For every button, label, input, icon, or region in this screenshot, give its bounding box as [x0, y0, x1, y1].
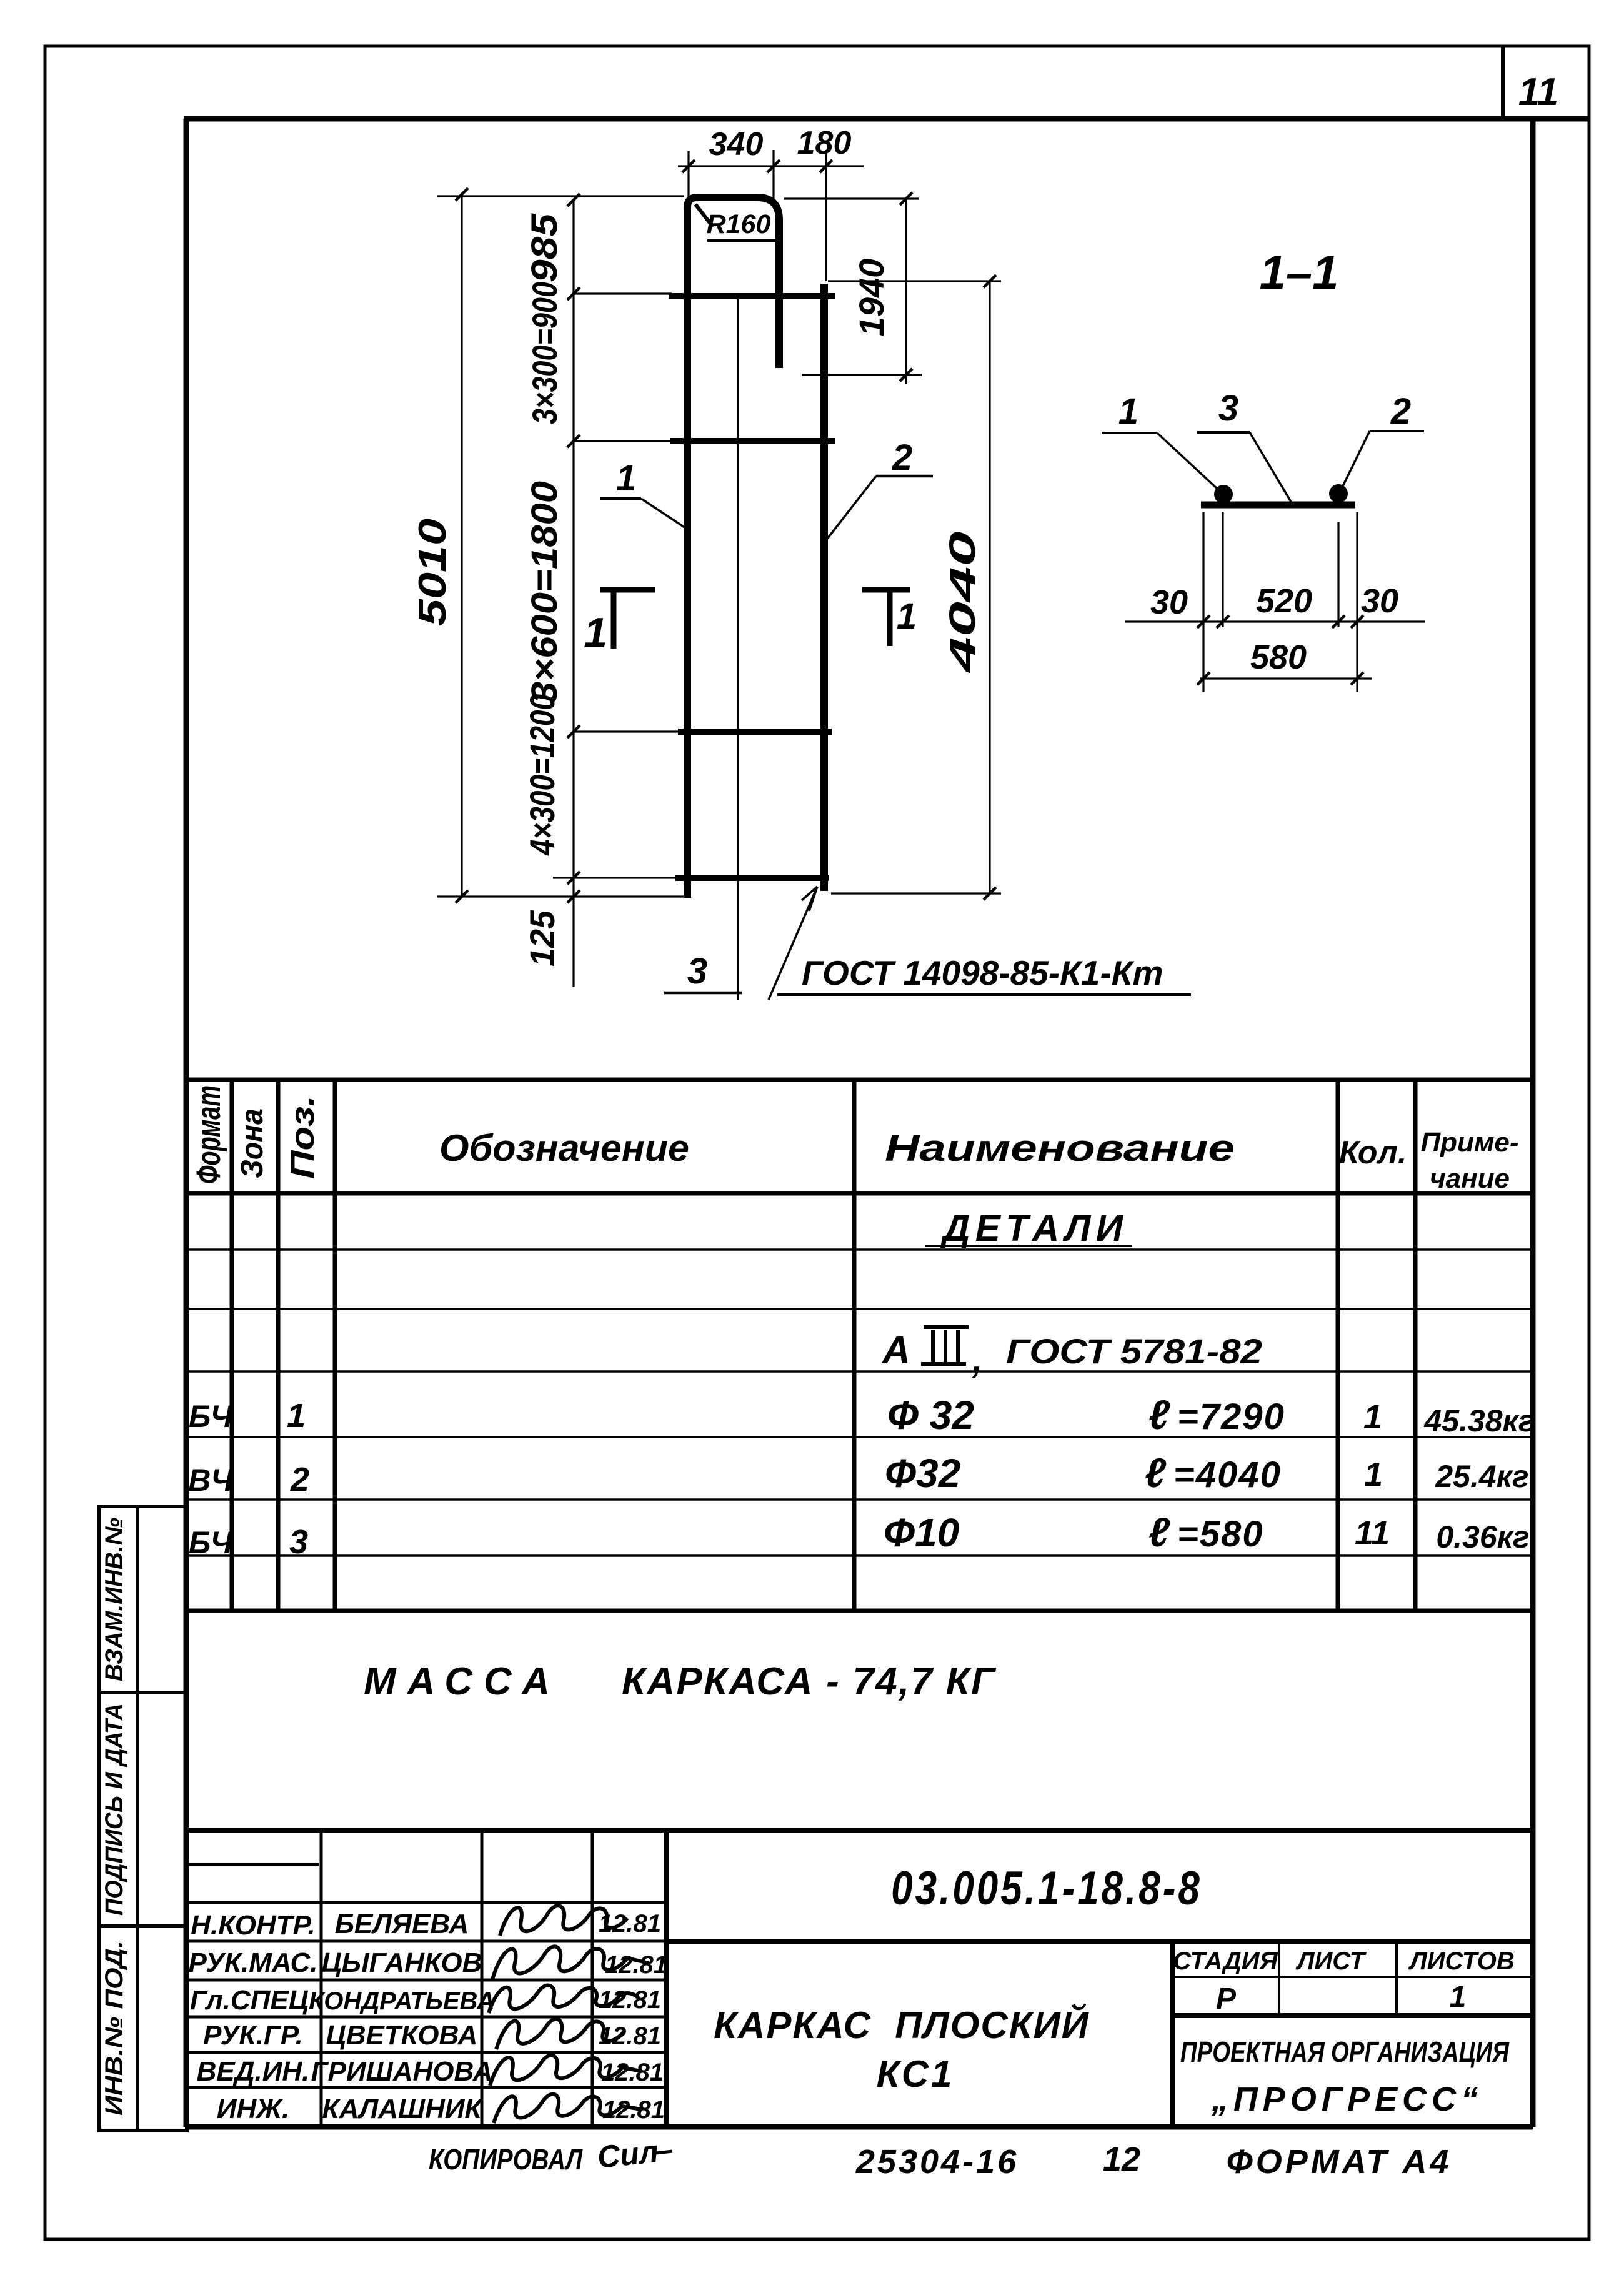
section mark 1 (right) [862, 590, 917, 646]
svg-text:Ф10: Ф10 [884, 1510, 959, 1555]
svg-text:БЧ: БЧ [189, 1399, 234, 1434]
svg-text:=580: =580 [1177, 1514, 1264, 1554]
row: DETALI [925, 1207, 1132, 1249]
svg-text:,: , [972, 1340, 982, 1380]
svg-text:ЦЫГАНКОВ: ЦЫГАНКОВ [322, 1947, 482, 1978]
svg-text:11: 11 [1355, 1515, 1390, 1552]
section: bar 1 dot [1214, 485, 1233, 504]
svg-text:КАЛАШНИК: КАЛАШНИК [322, 2094, 484, 2124]
document number [891, 1861, 1202, 1914]
axis line of cross bars [737, 296, 739, 1000]
position label 1 (leader) [600, 458, 685, 528]
svg-text:1–1: 1–1 [1260, 246, 1339, 299]
svg-text:12.81: 12.81 [599, 2022, 661, 2050]
svg-text:1: 1 [616, 458, 636, 499]
svg-text:чание: чание [1430, 1163, 1510, 1194]
svg-text:МАССА: МАССА [364, 1660, 550, 1703]
svg-text:=4040: =4040 [1173, 1455, 1282, 1495]
svg-text:1: 1 [287, 1397, 306, 1435]
section label 2 [1342, 391, 1424, 487]
section: cross bar 3 seen as strip [1201, 502, 1355, 509]
top dimension line 340 / 180 [678, 150, 864, 281]
title area grid [666, 1942, 1533, 2127]
position label 2 (leader) [825, 437, 933, 541]
svg-text:11: 11 [1518, 71, 1558, 114]
svg-text:4×300=1200: 4×300=1200 [522, 694, 562, 856]
svg-text:Наименование: Наименование [885, 1127, 1235, 1169]
cross bar 3 (bottom) [675, 875, 829, 881]
svg-text:ВЕД.ИН.: ВЕД.ИН. [197, 2056, 310, 2087]
svg-text:СТАДИЯ: СТАДИЯ [1173, 1947, 1278, 1975]
svg-text:25.4кг: 25.4кг [1435, 1459, 1528, 1494]
title block top line [186, 1828, 1533, 1833]
svg-text:ℓ: ℓ [1145, 1450, 1167, 1496]
signature rows text [189, 1909, 495, 2124]
svg-text:ℓ: ℓ [1148, 1509, 1170, 1555]
cross bar 3 (second) [670, 438, 835, 444]
svg-text:=7290: =7290 [1177, 1396, 1285, 1437]
svg-text:КС1: КС1 [877, 2053, 955, 2095]
svg-text:ПРОЕКТНАЯ ОРГАНИЗАЦИЯ: ПРОЕКТНАЯ ОРГАНИЗАЦИЯ [1180, 2036, 1510, 2068]
svg-text:Сил: Сил [595, 2134, 660, 2175]
svg-text:1940: 1940 [852, 259, 891, 337]
svg-text:ГОСТ 14098-85-К1-Кт: ГОСТ 14098-85-К1-Кт [802, 953, 1163, 992]
row: item 3, F10 l=580 [189, 1509, 1530, 1561]
svg-text:30: 30 [1361, 582, 1398, 620]
svg-text:3: 3 [687, 951, 707, 992]
svg-text:Н.КОНТР.: Н.КОНТР. [191, 1910, 315, 1941]
svg-text:340: 340 [709, 126, 764, 162]
cross bar 3 (top, item 3) [669, 293, 835, 299]
svg-text:5010: 5010 [411, 519, 454, 626]
main drawing frame (thick) [184, 119, 1589, 2127]
svg-text:БЧ: БЧ [189, 1525, 234, 1560]
svg-text:30: 30 [1150, 584, 1188, 621]
svg-text:2: 2 [892, 437, 912, 478]
section dim line 30/520/30 [1125, 620, 1425, 622]
svg-text:12.81: 12.81 [605, 1951, 667, 1979]
svg-text:ДЕТАЛИ: ДЕТАЛИ [940, 1207, 1124, 1249]
svg-text:520: 520 [1256, 582, 1312, 620]
svg-text:Ф 32: Ф 32 [887, 1393, 974, 1438]
svg-text:0.36кг: 0.36кг [1436, 1520, 1529, 1554]
svg-text:3: 3 [1218, 388, 1238, 429]
svg-text:Обозначение: Обозначение [439, 1127, 689, 1169]
section mark 1 (left) [584, 590, 655, 657]
svg-text:ЦВЕТКОВА: ЦВЕТКОВА [326, 2020, 478, 2051]
svg-text:КОНДРАТЬЕВА: КОНДРАТЬЕВА [309, 1987, 495, 2015]
svg-text:985: 985 [524, 213, 565, 282]
svg-text:РУК.ГР.: РУК.ГР. [203, 2020, 303, 2051]
svg-text:45.38кг: 45.38кг [1423, 1403, 1535, 1438]
svg-text:3: 3 [289, 1523, 308, 1561]
section dim line 580 [1200, 677, 1372, 679]
svg-text:ФОРМАТ А4: ФОРМАТ А4 [1227, 2143, 1452, 2181]
svg-text:ИНВ.№ ПОД.: ИНВ.№ ПОД. [101, 1941, 128, 2116]
svg-text:ЛИСТОВ: ЛИСТОВ [1408, 1947, 1515, 1975]
svg-text:Р: Р [1216, 1982, 1237, 2016]
signature squiggles [489, 1906, 649, 2123]
row: item 2, F32 l=4040 [188, 1450, 1528, 1498]
svg-text:А: А [881, 1329, 910, 1372]
dimension 1940 [784, 199, 922, 384]
bar 2 (item 2, d32 L=4040) vertical [820, 284, 828, 891]
svg-text:Гл.СПЕЦ.: Гл.СПЕЦ. [190, 1985, 316, 2016]
bar 1 (item 1, d32 L=7290) vertical [687, 197, 779, 898]
svg-text:1: 1 [1364, 1456, 1383, 1493]
svg-text:Поз.: Поз. [284, 1095, 321, 1179]
svg-text:ℓ: ℓ [1148, 1391, 1170, 1438]
svg-text:„ПРОГРЕСС“: „ПРОГРЕСС“ [1211, 2081, 1483, 2118]
svg-text:КАРКАСА - 74,7 КГ: КАРКАСА - 74,7 КГ [622, 1660, 997, 1703]
title block main divider [664, 1830, 669, 2127]
svg-text:Формат: Формат [190, 1085, 227, 1184]
svg-text:1: 1 [1118, 391, 1138, 432]
svg-text:25304-16: 25304-16 [855, 2143, 1019, 2181]
svg-text:R160: R160 [707, 209, 771, 239]
R160 radius label [695, 204, 776, 241]
section label 1 [1102, 391, 1218, 490]
section label 3 [1197, 388, 1291, 502]
signature table grid [186, 1830, 666, 2127]
svg-text:4040: 4040 [942, 532, 983, 674]
svg-text:КАРКАС ПЛОСКИЙ: КАРКАС ПЛОСКИЙ [714, 2004, 1090, 2046]
svg-text:12.81: 12.81 [599, 1986, 661, 2014]
svg-text:3×300=900: 3×300=900 [525, 282, 564, 424]
svg-text:12: 12 [1103, 2141, 1140, 2178]
svg-text:БЕЛЯЕВА: БЕЛЯЕВА [335, 1909, 469, 1939]
svg-text:12.81: 12.81 [601, 2059, 664, 2086]
page number box [1503, 46, 1558, 119]
weld note GOST 14098-85-K1-Kt [769, 887, 1191, 1000]
svg-text:1: 1 [1450, 1981, 1467, 2014]
section: bar 2 dot [1329, 484, 1348, 503]
svg-text:РУК.МАС.: РУК.МАС. [189, 1947, 318, 1978]
svg-text:1: 1 [1363, 1398, 1382, 1436]
svg-text:2: 2 [290, 1461, 309, 1498]
svg-text:КОПИРОВАЛ: КОПИРОВАЛ [429, 2143, 583, 2176]
svg-text:ПОДПИСЬ И ДАТА: ПОДПИСЬ И ДАТА [101, 1703, 128, 1916]
svg-text:Кол.: Кол. [1339, 1135, 1407, 1171]
svg-text:180: 180 [797, 125, 852, 161]
svg-text:ВЧ: ВЧ [188, 1463, 234, 1498]
section extension lines [1203, 512, 1357, 692]
svg-text:03.005.1-18.8-8: 03.005.1-18.8-8 [891, 1861, 1202, 1914]
dimension 4040 [828, 281, 1001, 893]
svg-text:Ф32: Ф32 [885, 1451, 960, 1496]
svg-text:ВЗАМ.ИНВ.№: ВЗАМ.ИНВ.№ [101, 1518, 128, 1681]
svg-text:ГОСТ 5781-82: ГОСТ 5781-82 [1006, 1331, 1262, 1371]
svg-text:1: 1 [584, 609, 607, 657]
position label 3 (bottom) [664, 951, 742, 993]
signature dates [599, 1910, 667, 2124]
row: A III, GOST 5781-82 [881, 1327, 1262, 1380]
svg-text:3×600=1800: 3×600=1800 [524, 481, 565, 704]
table grid [186, 1080, 1533, 1611]
dimension chain line [553, 200, 680, 987]
svg-text:1: 1 [897, 596, 917, 637]
svg-text:ГРИШАНОВА: ГРИШАНОВА [311, 2056, 493, 2087]
svg-text:580: 580 [1250, 639, 1307, 676]
overall dimension 5010 [437, 194, 687, 897]
svg-text:Зона: Зона [234, 1108, 269, 1178]
svg-text:Приме-: Приме- [1420, 1127, 1518, 1158]
svg-text:125: 125 [522, 910, 562, 967]
svg-text:ИНЖ.: ИНЖ. [217, 2094, 289, 2124]
row: item 1, F32 l=7290 [189, 1391, 1535, 1438]
cross bar 3 (third) [678, 729, 832, 735]
svg-text:ЛИСТ: ЛИСТ [1295, 1947, 1367, 1975]
svg-text:2: 2 [1390, 391, 1411, 432]
